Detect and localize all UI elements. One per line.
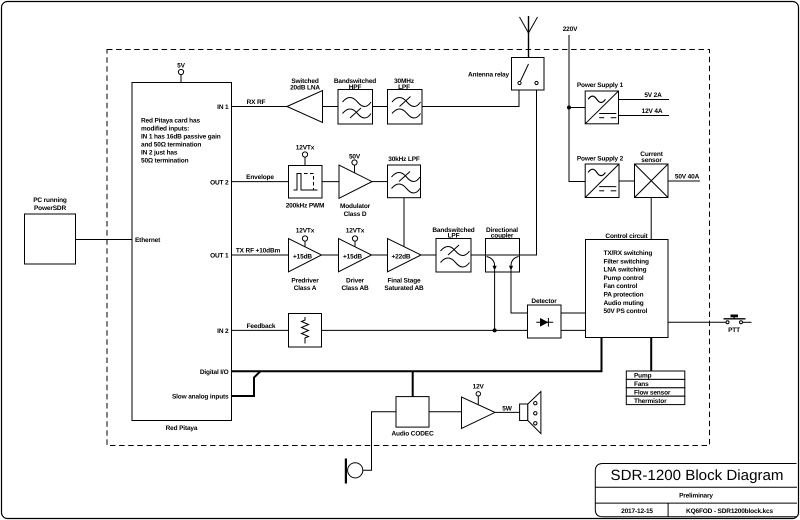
svg-text:Fans: Fans [634,381,649,388]
wire [372,181,388,183]
wire detector out 1 [561,312,586,314]
svg-text:Fan control: Fan control [604,283,638,290]
svg-text:IN 2: IN 2 [217,328,229,335]
wire codec to mic [363,412,396,471]
wire TX up to relay [520,90,537,255]
amplifier LNA (Switched 20dB LNA) [287,78,323,123]
pin labels [135,104,229,401]
svg-text:Pump control: Pump control [604,275,644,282]
amplifier Modulator Class D [339,165,372,218]
directional coupler [486,227,520,272]
bus drop to audio codec (thick) [412,371,414,396]
wire 50V 40A [668,174,700,182]
svg-text:Preliminary: Preliminary [679,493,713,500]
svg-text:50V PS control: 50V PS control [604,308,648,315]
svg-text:Audio CODEC: Audio CODEC [391,431,433,438]
svg-text:Final Stage: Final Stage [387,277,421,284]
filter 30MHz LPF [388,78,423,124]
svg-text:Predriver: Predriver [291,277,319,284]
svg-text:+22dB: +22dB [392,253,411,260]
svg-text:PTT: PTT [728,327,740,334]
svg-text:Flow sensor: Flow sensor [634,389,671,396]
svg-text:5W: 5W [502,406,512,413]
svg-text:12VTx: 12VTx [296,228,315,235]
wire [373,106,388,108]
svg-text:PC running: PC running [33,197,67,204]
pin 12VTx (PWM) [296,145,315,166]
wire [471,254,486,256]
svg-text:Driver: Driver [346,277,365,284]
svg-text:Power Supply 2: Power Supply 2 [577,156,624,163]
svg-text:2017-12-15: 2017-12-15 [621,508,653,515]
svg-text:12VTx: 12VTx [296,145,315,152]
bus drop to pump table (thick) [650,338,652,372]
microphone [346,459,363,484]
switch PTT [724,315,752,335]
svg-text:and 50Ω termination: and 50Ω termination [141,141,201,148]
wire 5V 2A [619,92,670,100]
svg-text:Power Supply 1: Power Supply 1 [577,82,624,89]
title block [595,464,797,517]
svg-text:OUT 1: OUT 1 [210,253,229,260]
svg-text:PA protection: PA protection [604,292,644,299]
wire Ethernet [76,239,133,241]
Red Pitaya note text [141,117,221,164]
wire PS2 to current sensor [619,180,635,182]
svg-text:Envelope: Envelope [246,174,274,181]
svg-text:Class A: Class A [294,285,317,292]
svg-text:20dB LNA: 20dB LNA [290,84,320,91]
svg-text:Digital I/O: Digital I/O [200,369,229,376]
current sensor [635,151,669,198]
amplifier Driver Class AB [339,239,372,293]
pin 50V (modulator) [349,154,361,173]
svg-text:+15dB: +15dB [293,253,312,260]
svg-text:Ethernet: Ethernet [135,237,161,244]
svg-text:KQ6FOD - SDR1200block.kcs: KQ6FOD - SDR1200block.kcs [686,508,773,515]
pin 12VTx (driver) [346,228,365,248]
wire [372,254,388,256]
svg-text:sensor: sensor [641,157,662,164]
pin 12V (audio amp) [473,384,485,405]
svg-text:Control circuit: Control circuit [605,233,648,240]
control circuit [586,233,669,338]
amplifier Final Stage Saturated AB [384,239,424,293]
wire TX RF [232,248,289,256]
audio CODEC [391,397,433,438]
detector (diode) [528,298,562,338]
pin 12VTx (predriver) [296,228,315,248]
svg-text:5V: 5V [177,63,185,70]
svg-text:Class D: Class D [344,211,367,218]
svg-text:Red Pitaya card has: Red Pitaya card has [141,117,200,124]
wire detector out 2 [561,329,586,331]
pin 5V power [177,63,185,83]
power supply Power Supply 1 [577,82,624,124]
svg-text:Antenna relay: Antenna relay [468,72,510,79]
svg-text:30kHz LPF: 30kHz LPF [388,156,420,163]
svg-text:LNA switching: LNA switching [604,267,647,274]
svg-text:Class AB: Class AB [341,285,369,292]
filter 30kHz LPF [388,156,421,198]
wire PTT line [668,321,726,323]
wire 220V feed [563,26,585,182]
svg-text:Feedback: Feedback [247,323,276,330]
wire Envelope [232,174,289,182]
svg-text:TX/RX switching: TX/RX switching [604,250,653,257]
amplifier audio 5W [462,397,496,429]
svg-text:+15dB: +15dB [343,253,362,260]
bus digital I/O (thick) [232,338,602,372]
svg-text:Saturated AB: Saturated AB [384,285,424,292]
resistor feedback attenuator [289,314,322,348]
svg-text:50Ω termination: 50Ω termination [141,157,189,164]
enclosure boundary (dashed) [107,50,710,446]
wire sense forward [494,270,496,330]
wire [322,181,339,183]
wire [323,106,339,108]
svg-text:IN 1 has 16dB passive gain: IN 1 has 16dB passive gain [141,133,221,140]
svg-text:12V 4A: 12V 4A [642,108,663,115]
svg-text:Pump: Pump [634,373,652,380]
block 200kHz PWM [286,166,325,210]
bus slow analog inputs (thick) [232,371,261,396]
svg-text:RX RF: RX RF [247,99,266,106]
svg-text:OUT 2: OUT 2 [210,179,229,186]
svg-text:SDR-1200 Block Diagram: SDR-1200 Block Diagram [611,468,784,484]
wire RX RF [232,99,288,107]
pump table [626,371,685,405]
PC box [25,197,76,264]
wire 12V 4A [619,108,670,116]
svg-text:50V 40A: 50V 40A [675,174,700,181]
wire feedback to detector [322,329,528,331]
svg-text:200kHz PWM: 200kHz PWM [286,203,325,210]
svg-text:220V: 220V [563,26,578,33]
power supply Power Supply 2 [577,156,624,198]
svg-text:Red Pitaya: Red Pitaya [166,425,198,432]
svg-text:Modulator: Modulator [340,203,371,210]
svg-text:12V: 12V [473,384,485,391]
wire sense reflected [511,270,528,313]
svg-text:Detector: Detector [531,298,557,305]
wire to antenna relay [422,90,519,107]
amplifier Predriver Class A [289,239,322,293]
wire amp to speaker [495,406,520,413]
svg-text:TX RF +10dBm: TX RF +10dBm [236,248,281,255]
junction [493,328,497,332]
speaker 5W [520,392,541,434]
antenna [520,16,538,64]
svg-text:12VTx: 12VTx [346,228,365,235]
svg-text:PowerSDR: PowerSDR [34,205,66,212]
relay Antenna relay [468,58,544,91]
Red Pitaya card (main block) [132,83,232,433]
wire [421,254,436,256]
svg-text:5V 2A: 5V 2A [644,92,662,99]
svg-text:IN 1: IN 1 [217,104,229,111]
wire codec to amp [429,411,462,413]
wire modulator output down to final stage [403,198,405,247]
wire sensor to control [650,198,652,240]
filter Bandswitched LPF (TX) [432,227,474,272]
wire Feedback [232,323,289,330]
svg-text:Audio muting: Audio muting [604,300,644,307]
wire [322,254,339,256]
svg-text:Slow analog inputs: Slow analog inputs [172,394,229,401]
svg-text:modified inputs:: modified inputs: [141,125,189,132]
svg-text:IN 2 just has: IN 2 just has [141,149,178,156]
filter Bandswitched HPF [334,78,376,124]
svg-text:Filter switching: Filter switching [604,258,649,265]
svg-text:Thermistor: Thermistor [634,398,667,405]
